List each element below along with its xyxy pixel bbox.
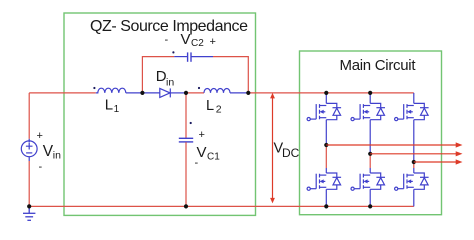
transistor Q5 (top leg3)	[395, 103, 429, 120]
wire: L2 to node C	[230, 92, 248, 94]
bottom rail wire	[29, 205, 414, 207]
wire: Q1 drain	[325, 93, 327, 104]
transistor Q2 (bottom leg1)	[307, 173, 341, 190]
svg-text:-: -	[39, 161, 43, 173]
svg-text:-: -	[195, 157, 199, 169]
wire: node B to L2	[186, 92, 204, 94]
wire: C2 loop right side	[213, 57, 248, 93]
wire: Q3 drain	[369, 93, 371, 104]
svg-text:in: in	[53, 150, 61, 162]
wire: node A to Q2 drain red	[325, 145, 327, 168]
capacitor C1	[179, 138, 193, 142]
wire: L1 to diode	[126, 92, 160, 94]
wire: Q2 source to bottom rail	[325, 189, 327, 206]
node: bottom rail dot leg1	[324, 204, 328, 208]
svg-text:QZ- Source Impedance: QZ- Source Impedance	[90, 18, 248, 35]
wire: top-left horizontal to L1	[29, 92, 96, 94]
wire: Q5 drain	[413, 93, 415, 104]
node: top rail dot leg1	[324, 91, 328, 95]
node: ground junction	[27, 204, 31, 208]
wire: source to bottom rail	[28, 161, 30, 206]
node: phase B dot	[368, 152, 372, 156]
wire: blue lead right of C2	[191, 56, 213, 58]
polarity dot L1	[93, 87, 95, 89]
svg-text:in: in	[166, 77, 174, 89]
wire: Q2 drain blue	[325, 168, 327, 173]
svg-text:C2: C2	[191, 38, 204, 49]
transistor Q3 (top leg2)	[351, 103, 385, 120]
wire: Q4 source to bottom rail	[369, 189, 371, 206]
svg-text:2: 2	[216, 103, 222, 115]
svg-text:C1: C1	[207, 152, 220, 163]
polarity dot C2	[172, 51, 174, 53]
wire: diode to node B	[170, 92, 186, 94]
wire: phase C output arrow	[414, 159, 463, 164]
transistor Q6 (bottom leg3)	[395, 173, 429, 190]
wire: blue lead left of C2	[174, 56, 187, 58]
wire: node C2 to Q6 drain red	[413, 162, 415, 168]
node: phase A dot	[324, 143, 328, 147]
svg-text:+: +	[37, 130, 43, 142]
node: C1 bottom junction	[184, 204, 188, 208]
wire: node B2 to Q4 drain red	[369, 154, 371, 168]
capacitor C2	[188, 52, 191, 61]
wire: blue stub above source	[28, 139, 30, 143]
wire: Q3 source to node B2	[369, 120, 371, 154]
wire: Vin up to top rail	[28, 93, 30, 139]
inductor L1	[96, 88, 126, 93]
wire: phase A output arrow	[326, 142, 462, 147]
wire: Q4 drain blue	[369, 168, 371, 173]
node: junction dot B	[184, 91, 188, 95]
node: junction dot C	[246, 91, 250, 95]
node: top rail dot leg2	[368, 91, 372, 95]
transistor Q1 (top leg1)	[307, 103, 341, 120]
polarity dot C1	[190, 122, 192, 124]
voltage source Vin	[21, 141, 37, 161]
polarity dot L2	[198, 87, 200, 89]
transistor Q4 (bottom leg2)	[351, 173, 385, 190]
wire: phase B output arrow	[370, 151, 462, 156]
wire: node B down to C1	[185, 93, 187, 138]
svg-text:DC: DC	[282, 146, 300, 160]
svg-text:+: +	[199, 129, 205, 141]
inductor L2	[204, 89, 230, 93]
VDC measurement arrow	[270, 93, 275, 203]
svg-text:Main Circuit: Main Circuit	[340, 57, 417, 74]
node: phase C dot	[412, 160, 416, 164]
svg-text:L: L	[206, 98, 214, 114]
svg-text:L: L	[105, 97, 113, 114]
wire: Q6 source to bottom rail	[413, 189, 415, 206]
ground	[23, 206, 35, 220]
node: junction dot C2 left	[140, 91, 144, 95]
wire: top rail node C to main circuit	[248, 92, 413, 94]
Main Circuit box	[300, 51, 442, 215]
QZ-Source Impedance box	[64, 13, 256, 215]
diode Din	[160, 88, 171, 97]
wire: Q1 source to node A	[325, 120, 327, 145]
svg-text:+: +	[210, 36, 216, 48]
wire: C1 down to bottom rail	[185, 142, 187, 206]
svg-text:-: -	[165, 34, 169, 46]
wire: C2 loop left side	[142, 57, 174, 93]
node: bottom rail dot leg2	[368, 204, 372, 208]
svg-text:1: 1	[114, 104, 120, 115]
wire: Q6 drain blue	[413, 168, 415, 173]
wire: Q5 source to node C2	[413, 120, 415, 162]
